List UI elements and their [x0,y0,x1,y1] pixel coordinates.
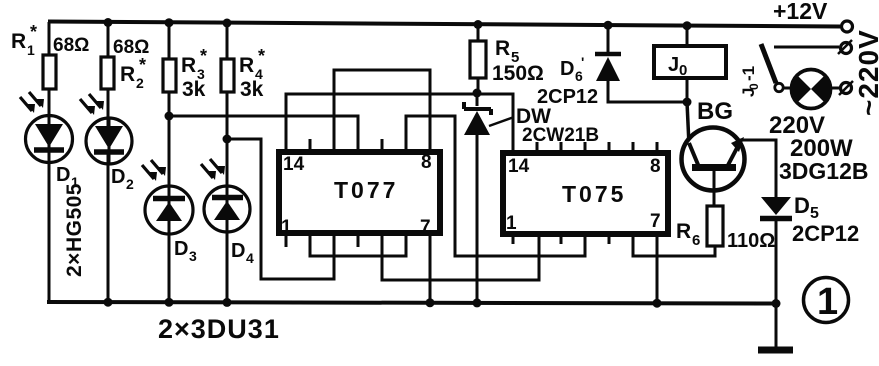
svg-text:R: R [11,30,26,53]
svg-text:1: 1 [281,217,292,238]
svg-text:14: 14 [283,154,305,175]
diode D6 [595,54,621,81]
wire R3 to node at y116 [168,92,171,116]
resistor R3 [163,59,176,92]
svg-text:*: * [30,22,37,42]
wire D6 top [607,23,610,54]
svg-text:1: 1 [506,213,517,234]
svg-text:150Ω: 150Ω [492,62,544,85]
wire bottom ground rail [47,302,776,304]
svg-text:J: J [668,54,679,76]
terminal +12V [842,21,853,32]
wire R6 bottom to T075 pin6 [633,233,715,256]
label D6 [560,54,584,84]
wire R5 top [477,23,480,41]
svg-text:7: 7 [420,217,431,238]
photodiode D4 [201,159,250,232]
diode D5 [760,197,792,219]
svg-text:2×3DU31: 2×3DU31 [158,314,280,344]
svg-text:6: 6 [692,232,700,249]
resistor R1 [43,55,56,89]
wire node y139 to D4 [226,139,229,198]
wire BG emitter to D5 [740,140,776,197]
svg-text:14: 14 [508,156,530,177]
wire R2 to D2 [107,89,110,126]
svg-text:8: 8 [650,156,661,177]
resistor R2 [101,57,114,89]
svg-text:R: R [495,37,510,60]
svg-text:3DG12B: 3DG12B [779,158,868,184]
wire loop T077 pin12 to pin8 [334,70,430,151]
svg-text:T075: T075 [562,181,626,207]
svg-text:3: 3 [189,248,197,264]
wire R5 bottom to zener node [477,78,480,94]
svg-text:D: D [174,238,188,260]
wire R5 node to T075 pin14 [476,94,513,153]
wire D1 to bottom rail [48,150,51,302]
wire R2 column top [107,22,110,57]
svg-text:T077: T077 [334,177,398,203]
wire D3 to bottom rail [168,222,171,302]
wire ground stem [775,303,778,347]
wire T077 pin5 to T075 pin2 [382,235,539,280]
label R6 [676,220,700,249]
svg-text:8: 8 [421,152,432,173]
svg-text:6: 6 [575,68,583,84]
svg-text:2CW21B: 2CW21B [522,125,599,146]
LED D2 [80,94,132,164]
wire loop T077 pin2 to pin6 [310,235,406,256]
label D1 [56,164,79,190]
photodiode D3 [142,160,193,234]
svg-text:1: 1 [27,42,35,58]
svg-text:D: D [794,193,810,218]
wire T077 pin7 to bottom rail [429,235,432,302]
svg-text:R: R [120,63,135,86]
svg-text:R: R [239,54,254,77]
wire T075 pin7 to bottom rail [656,233,659,303]
svg-text:-1: -1 [739,66,758,81]
label R2 [120,55,146,91]
IC U1 T077 [279,139,440,247]
svg-text:2: 2 [126,176,134,192]
svg-text:D: D [111,166,125,188]
svg-text:3k: 3k [182,78,206,101]
wire zener DW to bottom rail [476,94,479,302]
svg-text:0: 0 [747,83,761,90]
ground [758,347,793,354]
wire node R4 y139 to T077 pin3 [227,139,334,279]
svg-text:~220V: ~220V [853,29,879,116]
wire D4 to bottom rail [226,222,229,302]
label D5 [794,193,819,222]
svg-text:7: 7 [650,211,661,232]
label D3 [174,238,197,264]
wire R3 column top [168,22,171,59]
wire lamp to 220V terminal lower [830,87,840,90]
wire +12V top rail [48,22,840,27]
svg-text:2: 2 [136,75,144,91]
switch J0-1 [761,44,783,92]
wire J0 bottom to collector node [686,78,689,102]
wire R1 column top [48,22,51,55]
wire R4 to node at y139 [226,92,229,139]
label D2 [111,166,134,192]
wire node y116 to D3 [168,116,171,198]
resistor R4 [221,59,234,92]
wire D2 to bottom rail [107,152,110,302]
svg-text:R: R [181,54,196,77]
svg-text:*: * [200,46,207,66]
LED D1 [20,92,73,163]
wire node R3 y116 to T077 pin11 [169,116,358,151]
node 1 marker [804,278,849,324]
wire D5 to bottom rail [775,220,778,303]
resistor R5 [470,41,486,78]
lamp [791,70,830,109]
svg-text:1: 1 [817,281,838,323]
label D4 [231,240,254,266]
svg-text:D: D [560,58,574,80]
wire switch to lamp [782,87,792,90]
svg-text:0: 0 [679,62,687,79]
transistor Q1 BG [682,128,745,207]
wire collector node to BG [687,102,689,145]
svg-text:68Ω: 68Ω [53,35,89,56]
zener diode DW [464,102,514,135]
svg-text:4: 4 [246,250,254,266]
svg-text:*: * [139,55,146,75]
svg-text:BG: BG [697,98,733,125]
svg-text:110Ω: 110Ω [727,230,775,252]
svg-text:2CP12: 2CP12 [537,86,598,108]
svg-text:2CP12: 2CP12 [792,221,859,246]
label R1 [11,22,37,58]
svg-text:2×HG505: 2×HG505 [63,183,86,277]
wire T077 pin14 to R5 node [286,94,476,151]
svg-text:*: * [258,46,265,66]
svg-text:3k: 3k [240,78,264,101]
svg-text:': ' [581,54,584,70]
svg-text:5: 5 [810,205,819,222]
wire D6 bottom to collector node [608,80,687,102]
label R3 [181,46,207,82]
svg-text:R: R [676,220,691,243]
wire 220V terminal upper [774,46,839,49]
svg-text:D: D [231,240,245,262]
wire R1 to D1 [48,89,51,124]
IC U2 T075 [503,142,668,244]
wire R4 column top [226,22,229,59]
terminal 220V lower [839,81,853,95]
svg-text:D: D [56,164,70,186]
resistor R6 [707,206,723,246]
label R4 [239,46,265,82]
wire T077 pin9 to T075 pin4 [406,116,585,256]
svg-text:+12V: +12V [773,0,828,24]
terminal 220V upper [838,40,852,54]
relay coil J0 [654,46,726,79]
label R5 [495,37,519,66]
wire J0 top [686,23,689,46]
